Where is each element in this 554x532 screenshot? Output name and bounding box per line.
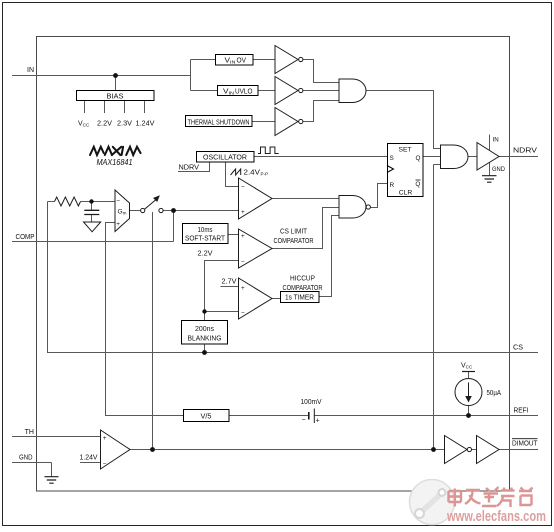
wire oscillator out to flip-flop S — [254, 156, 387, 158]
AND gate G1 (protection) — [339, 79, 366, 103]
svg-text:1.24V: 1.24V — [80, 455, 98, 462]
wire NAND G3 out to flip-flop R — [371, 184, 388, 208]
svg-text:2.2V: 2.2V — [198, 251, 213, 258]
wire REFI line left of battery — [229, 415, 308, 417]
wire CS comparator out to NAND G3 — [272, 208, 339, 249]
svg-text:www.elecfans.com: www.elecfans.com — [446, 509, 546, 525]
inverter U4 (thermal) — [275, 108, 298, 136]
wire inverter U2 out to AND G1 — [303, 60, 339, 83]
wire NDRV pin — [499, 156, 538, 158]
svg-text:50µA: 50µA — [487, 390, 502, 397]
svg-text:SOFT-START: SOFT-START — [185, 236, 226, 243]
wire soft-start to CS comparator plus — [228, 234, 239, 236]
wire Gm output to switch — [130, 210, 141, 212]
node TH comparator out junction — [150, 447, 155, 452]
flip-flop clock wedge — [387, 166, 394, 173]
svg-text:TH: TH — [25, 429, 34, 436]
node IN/BIAS junction — [113, 73, 118, 78]
svg-text:Q: Q — [416, 155, 421, 162]
op-amp U9 hiccup comparator — [239, 278, 273, 319]
svg-text:UVLO: UVLO — [235, 88, 253, 95]
oscillator square wave icon — [258, 147, 279, 154]
wire Gm plus input from V/5 — [106, 223, 184, 416]
svg-text:−: − — [302, 417, 306, 424]
op-amp U10 TH comparator — [101, 430, 131, 469]
flip-flop labels — [390, 147, 421, 197]
wire hiccup comparator out to timer — [272, 298, 280, 300]
wire blanking to CS line — [204, 344, 206, 353]
svg-text:−: − — [241, 310, 245, 317]
wire AND G2 to buffer U5 — [468, 156, 477, 158]
ground (NDRV buffer) — [482, 176, 497, 183]
wire NDRV feedback into oscillator — [178, 162, 210, 172]
svg-text:THERMAL SHUTDOWN: THERMAL SHUTDOWN — [188, 119, 250, 126]
svg-text:REFI: REFI — [514, 408, 529, 415]
NAND gate G3 — [339, 196, 366, 219]
logo MAXIM — [90, 147, 141, 155]
wire AND G1 out down to driver AND G2 — [366, 91, 441, 149]
wire UVLO box to inverter U3 — [258, 90, 275, 92]
node DIM line junction — [431, 447, 436, 452]
wire inverter U3 out to AND G1 — [303, 90, 339, 92]
svg-text:+: + — [316, 418, 320, 425]
svg-text:2.4V: 2.4V — [244, 170, 261, 177]
comparator +/- marks — [103, 184, 245, 468]
svg-text:SET: SET — [399, 147, 412, 154]
wire dim inverter to dim buffer — [472, 449, 477, 451]
svg-text:MAX16841: MAX16841 — [97, 158, 133, 167]
wire IN tee to OV/UVLO — [191, 60, 218, 91]
svg-text:Gm: Gm — [118, 209, 127, 216]
node current source/REFI junction — [466, 413, 471, 418]
wire GND pin — [12, 463, 52, 477]
svg-text:2.2V: 2.2V — [97, 121, 112, 128]
buffer U5 (NDRV driver) — [477, 143, 499, 171]
svg-text:IN: IN — [27, 67, 34, 74]
wire THERMAL box to inverter U4 — [252, 121, 275, 123]
svg-text:−: − — [116, 198, 120, 205]
svg-text:+: + — [241, 209, 245, 216]
svg-text:S: S — [390, 155, 394, 162]
op-amp U8 CS limit comparator — [239, 229, 273, 268]
svg-text:COMP: COMP — [16, 234, 35, 241]
block BIAS — [77, 91, 155, 101]
svg-text:COMPARATOR: COMPARATOR — [274, 238, 314, 245]
svg-text:IN: IN — [493, 137, 499, 144]
buffer U12 (dimout) — [477, 436, 500, 464]
amplifier U1 Gm — [115, 190, 130, 232]
svg-text:+: + — [116, 221, 120, 228]
wire COMP pin — [12, 211, 174, 242]
svg-text:GND: GND — [19, 455, 33, 462]
block OSCILLATOR — [197, 152, 255, 163]
wire timer out to NAND G3 — [319, 216, 339, 297]
svg-text:−: − — [241, 259, 245, 266]
svg-text:OSCILLATOR: OSCILLATOR — [203, 154, 247, 161]
wire DIM vertical to AND G2 — [434, 165, 441, 450]
wire current source to REFI line — [468, 406, 470, 416]
block THERMAL SHUTDOWN — [186, 116, 253, 127]
wire switch to node — [163, 210, 174, 212]
IC boundary box — [37, 37, 510, 492]
wire oscillator to PWM comparator minus — [226, 162, 239, 187]
wire capacitor stubs — [91, 202, 93, 222]
sawtooth icon — [231, 169, 241, 175]
node switch/COMP junction — [171, 208, 176, 213]
watermark elecfans — [410, 480, 547, 526]
inverter U11 (dim) — [445, 436, 468, 464]
capacitor C1 — [84, 210, 99, 214]
wire IN to BIAS — [115, 76, 117, 91]
wire TH pin — [12, 436, 101, 438]
node blanking/CS junction — [202, 350, 207, 355]
svg-text:CS: CS — [513, 345, 523, 352]
switch S1 — [141, 208, 145, 212]
svg-text:CS LIMIT: CS LIMIT — [280, 229, 308, 236]
wire BIAS output stubs — [85, 101, 145, 114]
wire buffer U5 IN stub — [489, 135, 491, 151]
svg-text:BLANKING: BLANKING — [188, 336, 222, 343]
VCC supply bar — [462, 371, 475, 373]
svg-text:−: − — [241, 184, 245, 191]
AND gate G2 (driver) — [441, 145, 469, 169]
svg-text:R: R — [390, 182, 395, 189]
inverter U3 (VIN UVLO) — [275, 77, 298, 105]
wire 1.24V reference stub — [80, 462, 101, 464]
wire flip-flop Q to driver AND G2 — [423, 156, 441, 158]
wire VCC supply stub — [468, 372, 470, 379]
block 200ns BLANKING — [182, 321, 228, 345]
node resistor/capacitor junction — [89, 199, 93, 203]
wire buffer U5 GND stub — [489, 163, 491, 176]
wire REFI line right of battery — [315, 415, 539, 417]
svg-text:P-P: P-P — [261, 172, 269, 177]
ground (capacitor, open triangle) — [84, 222, 101, 232]
svg-text:2.7V: 2.7V — [222, 279, 237, 286]
svg-text:CLR: CLR — [399, 189, 413, 196]
current source I1 — [455, 379, 482, 406]
wire inverter U4 out to AND G1 — [303, 101, 339, 122]
svg-text:2.3V: 2.3V — [117, 121, 132, 128]
svg-text:BIAS: BIAS — [107, 93, 124, 100]
block VIN UVLO — [218, 86, 259, 96]
svg-text:OV: OV — [237, 57, 247, 64]
wire resistor leads — [48, 201, 116, 203]
wire dim control vertical to switch — [152, 212, 154, 450]
svg-text:+: + — [103, 435, 107, 442]
wire OV box to inverter U2 — [253, 59, 275, 61]
block 1s TIMER — [281, 292, 320, 303]
wire CS comparator minus to blanking — [205, 261, 239, 321]
wire switch node to PWM comparator plus — [174, 210, 239, 212]
svg-text:COMPARATOR: COMPARATOR — [283, 285, 323, 292]
op-amp U7 PWM comparator — [239, 178, 273, 219]
svg-text:+: + — [241, 233, 245, 240]
node comparator minus branch — [202, 309, 206, 313]
svg-text:Q: Q — [415, 181, 420, 188]
block VIN OV — [216, 55, 254, 66]
wire compensation vertical and CS line — [48, 202, 539, 353]
flip-flop U6 SR latch — [388, 144, 424, 197]
inverter U2 (VIN OV) — [275, 46, 298, 74]
svg-text:V/5: V/5 — [201, 413, 212, 420]
svg-text:NDRV: NDRV — [179, 165, 200, 172]
svg-text:HICCUP: HICCUP — [290, 276, 315, 283]
wire hiccup comparator minus branch — [205, 311, 239, 313]
svg-text:200ns: 200ns — [195, 326, 214, 333]
svg-text:GND: GND — [492, 166, 506, 173]
ground (GND pin) — [45, 477, 59, 484]
wire DIMOUT pin — [499, 449, 538, 451]
block V/5 — [184, 410, 230, 422]
wire PWM comparator out to NAND G3 — [272, 198, 339, 200]
svg-text:DIMOUT: DIMOUT — [512, 441, 538, 448]
svg-text:NDRV: NDRV — [513, 148, 537, 155]
resistor R1 — [55, 197, 81, 206]
battery B1 100mV — [308, 412, 310, 420]
svg-text:1.24V: 1.24V — [136, 121, 155, 128]
wire TH comparator out to DIMOUT inverters — [130, 449, 445, 451]
wire 2.7V reference stub — [221, 286, 239, 288]
svg-text:+: + — [241, 285, 245, 292]
svg-text:1s TIMER: 1s TIMER — [285, 295, 314, 302]
svg-text:10ms: 10ms — [198, 227, 213, 234]
wire IN pin — [12, 75, 191, 77]
block 10ms SOFT-START — [183, 224, 229, 244]
svg-text:100mV: 100mV — [301, 399, 322, 406]
svg-text:−: − — [103, 461, 107, 468]
